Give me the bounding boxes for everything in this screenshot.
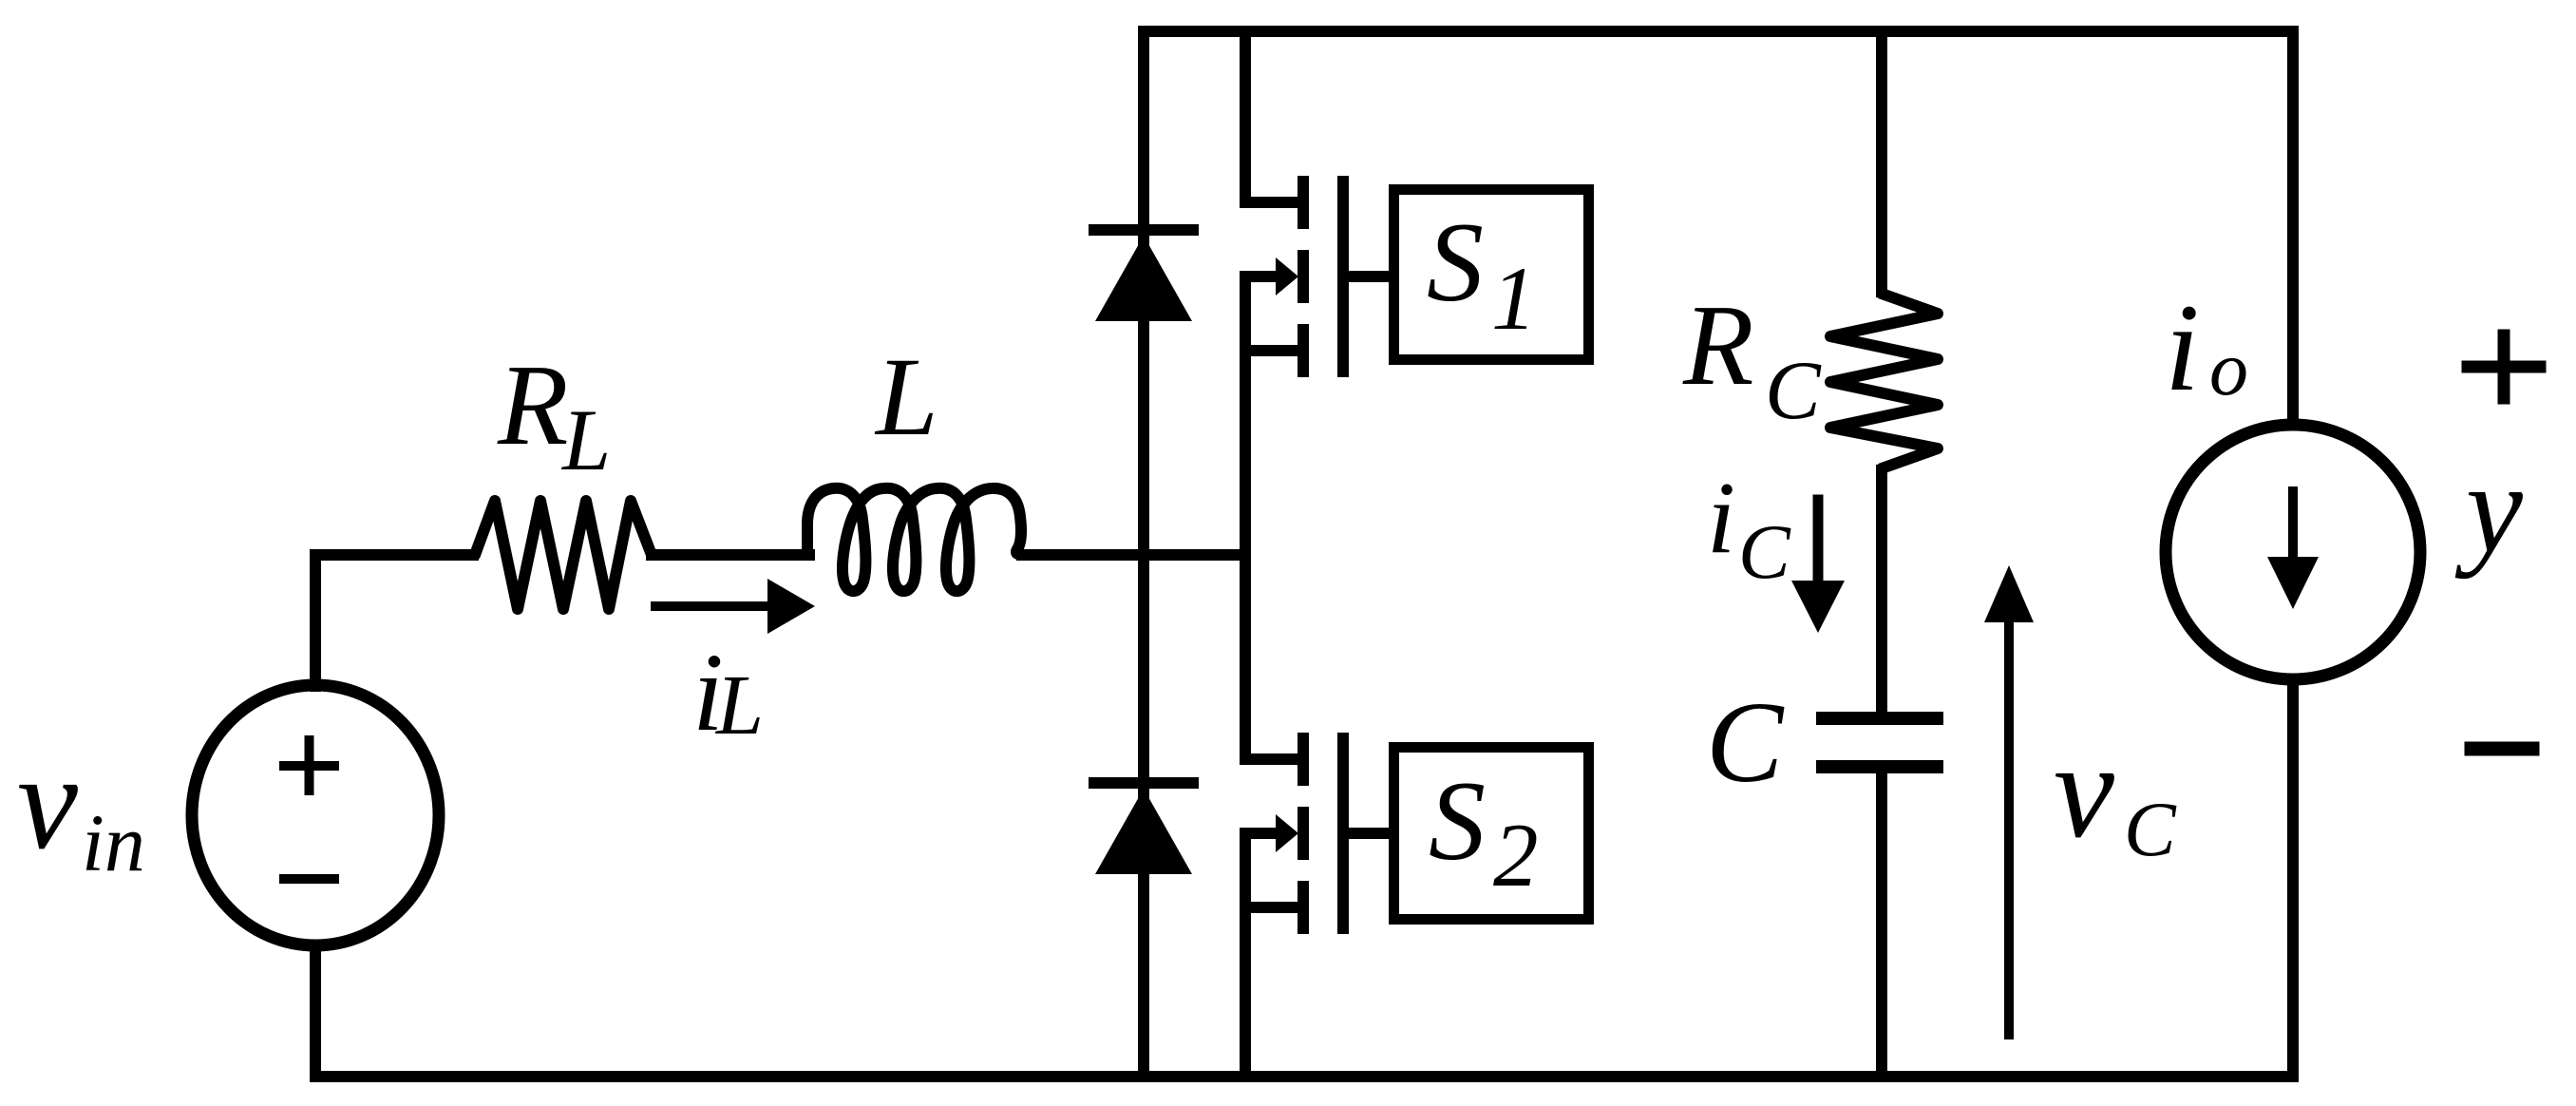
voltage arrow v_C xyxy=(2004,622,2014,1035)
current arrow i_L xyxy=(655,601,774,611)
transistor S2 channel contact middle xyxy=(1297,812,1309,854)
svg-text:C: C xyxy=(2124,786,2177,872)
transistor S1 gate lead xyxy=(1343,271,1393,282)
capacitor C top plate xyxy=(1816,712,1943,725)
svg-text:S: S xyxy=(1427,199,1484,325)
diode D1 cathode bar xyxy=(1094,224,1193,236)
wire R_C to capacitor xyxy=(1876,470,1887,713)
output minus sign xyxy=(2472,742,2532,756)
transistor S1 drain lead xyxy=(1245,31,1298,202)
svg-text:y: y xyxy=(2454,438,2523,580)
voltage source v_in circle xyxy=(192,685,439,945)
svg-text:v: v xyxy=(2054,715,2114,867)
svg-text:2: 2 xyxy=(1493,805,1539,906)
transistor S1 channel contact middle xyxy=(1297,256,1309,297)
transistor S2 channel contact top xyxy=(1297,738,1309,780)
transistor S2 gate lead xyxy=(1343,828,1393,839)
transistor S2 source lead xyxy=(1240,833,1251,1077)
wire bottom rail xyxy=(315,1071,2293,1082)
transistor S1 channel contact top xyxy=(1297,181,1309,223)
wire top rail xyxy=(1144,26,2293,37)
wire mid rail left segment xyxy=(315,549,473,561)
resistor R_L xyxy=(475,501,652,609)
wire between R_L and L xyxy=(652,549,809,561)
svg-text:C: C xyxy=(1765,345,1822,437)
transistor S2 gate bar xyxy=(1337,738,1349,928)
diode D2 triangle xyxy=(1095,789,1192,874)
wire diode branch vertical xyxy=(1138,31,1149,1077)
svg-text:R: R xyxy=(497,341,569,469)
resistor R_C xyxy=(1830,294,1938,468)
svg-text:in: in xyxy=(82,797,145,888)
svg-text:C: C xyxy=(1706,678,1785,807)
wire v_in bottom lead xyxy=(310,945,321,1077)
transistor S2 source stub xyxy=(1245,902,1298,913)
svg-text:v: v xyxy=(17,727,78,878)
wire current source bottom lead xyxy=(2287,679,2299,1077)
inductor L xyxy=(807,488,1024,591)
diode D1 triangle xyxy=(1095,236,1192,321)
voltage source plus sign xyxy=(284,740,334,791)
current arrow i_C xyxy=(1813,500,1824,584)
current source internal arrow xyxy=(2288,491,2298,563)
transistor S1 channel contact bottom xyxy=(1297,330,1309,372)
svg-text:o: o xyxy=(2209,325,2248,411)
svg-text:1: 1 xyxy=(1491,248,1537,349)
svg-text:i: i xyxy=(2165,277,2200,417)
transistor S1 box xyxy=(1394,190,1589,360)
svg-text:S: S xyxy=(1429,757,1486,884)
svg-text:L: L xyxy=(560,391,611,488)
svg-text:C: C xyxy=(1738,508,1791,595)
capacitor C bottom plate xyxy=(1816,760,1943,773)
voltage source minus sign xyxy=(284,874,334,884)
wire current source top lead xyxy=(2287,31,2299,425)
wire capacitor to bottom rail xyxy=(1876,773,1887,1077)
svg-text:i: i xyxy=(1707,462,1735,575)
svg-text:R: R xyxy=(1682,281,1754,410)
diode D2 cathode bar xyxy=(1094,777,1193,789)
svg-text:L: L xyxy=(714,658,764,753)
transistor S1 gate bar xyxy=(1337,181,1349,372)
output plus sign xyxy=(2468,335,2540,398)
transistor S2 channel contact bottom xyxy=(1297,887,1309,928)
transistor S1 source lead xyxy=(1240,276,1251,555)
transistor S1 source stub xyxy=(1245,345,1298,356)
wire R_C branch top xyxy=(1876,31,1887,292)
wire L to switch node xyxy=(1022,549,1245,561)
svg-text:L: L xyxy=(874,334,938,459)
transistor S2 box xyxy=(1394,748,1589,920)
transistor S2 body arrow xyxy=(1245,828,1277,839)
current source i_o circle xyxy=(2166,425,2420,679)
transistor S1 body arrow xyxy=(1245,271,1277,282)
wire v_in top lead to mid rail xyxy=(310,555,321,686)
transistor S2 drain lead xyxy=(1245,555,1298,759)
